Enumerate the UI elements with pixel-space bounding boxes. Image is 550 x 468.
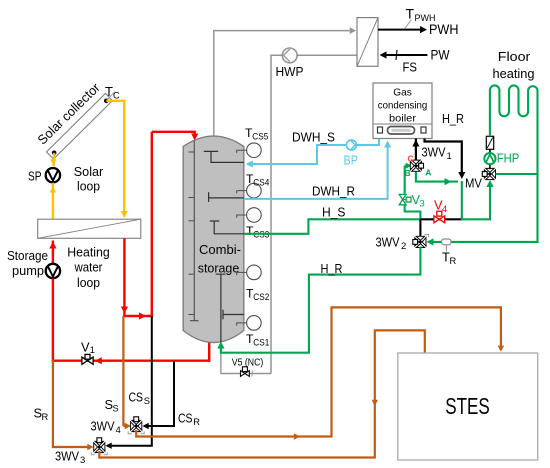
- wire H_S tank to junction (green): [244, 219, 421, 234]
- wire right riser to 3WV2 (green): [427, 174, 538, 246]
- label 3WV1: [422, 145, 452, 163]
- wire V1 return line (red): [52, 357, 210, 364]
- label H_R top: [442, 111, 464, 126]
- svg-text:V: V: [81, 340, 90, 355]
- node collector top port: [104, 99, 109, 104]
- svg-text:PW: PW: [431, 48, 450, 63]
- wire collector to solar HX (yellow): [106, 101, 128, 218]
- wire S_S (brown): [123, 316, 130, 429]
- svg-text:R: R: [450, 256, 457, 266]
- label H_S: [322, 205, 346, 220]
- svg-text:A: A: [425, 168, 431, 178]
- tank combi-storage body: [183, 136, 244, 342]
- label Gas condensing boiler: [378, 87, 428, 125]
- heat-exchanger PWH: [357, 18, 378, 67]
- label FS: [403, 60, 418, 75]
- valve 3WV1: [410, 160, 423, 171]
- svg-text:V5 (NC): V5 (NC): [232, 358, 263, 369]
- svg-text:boiler: boiler: [389, 113, 417, 125]
- svg-text:S: S: [113, 404, 119, 414]
- label CS_S: [129, 390, 151, 407]
- label Storage pump: [7, 248, 48, 278]
- svg-text:3WV: 3WV: [55, 449, 79, 464]
- svg-text:FS: FS: [403, 60, 418, 75]
- wire junction to MV bottom (green): [462, 180, 494, 220]
- svg-text:loop: loop: [77, 179, 100, 194]
- svg-text:CS4: CS4: [253, 178, 269, 188]
- wire S_R (brown): [53, 360, 94, 451]
- wire solar HX right riser (red): [151, 132, 153, 317]
- wire V4 segment (black): [420, 218, 461, 220]
- tank internal bottom pipe: [223, 310, 244, 320]
- svg-text:FHP: FHP: [497, 151, 520, 166]
- label CS_R: [178, 411, 200, 428]
- svg-text:R: R: [42, 412, 49, 422]
- STES box: [398, 353, 538, 460]
- pump FHP: [484, 153, 495, 164]
- solar collector panel: [47, 93, 113, 159]
- valve V4: [434, 211, 445, 223]
- svg-text:T: T: [406, 6, 415, 22]
- pump storage: [46, 264, 60, 278]
- svg-text:STES: STES: [445, 393, 490, 419]
- pump SP: [46, 168, 60, 182]
- svg-text:BP: BP: [344, 153, 359, 168]
- label Heating water loop: [67, 245, 110, 291]
- svg-text:3: 3: [80, 455, 85, 466]
- label PWH: [429, 22, 459, 37]
- actuator mark 3WV2: [425, 235, 429, 238]
- svg-text:T: T: [105, 84, 113, 99]
- wire solar supply to tank top (red): [152, 132, 199, 141]
- wire H_R return to tank (green): [217, 247, 420, 353]
- pump BP: [346, 140, 356, 150]
- svg-text:CS: CS: [178, 411, 193, 426]
- wire collector bottom to SP (yellow): [50, 153, 56, 166]
- svg-text:C: C: [408, 154, 414, 164]
- svg-text:C: C: [113, 91, 120, 101]
- boiler gas condensing box: [373, 83, 432, 139]
- tank internal DWH_R pipe: [209, 192, 244, 202]
- wire PWH outlet (black): [378, 26, 427, 33]
- label HWP: [276, 64, 304, 79]
- label Solar collector: [35, 79, 104, 147]
- heat-exchanger solar: [38, 219, 141, 238]
- sensor FS tick: [396, 50, 397, 60]
- node collector bottom port: [52, 151, 57, 156]
- valve V3: [399, 194, 411, 204]
- label port A: [425, 168, 431, 178]
- label 3WV4: [91, 419, 121, 437]
- label S_S: [105, 397, 119, 414]
- wire V5 drain (gray): [221, 353, 271, 374]
- svg-text:water: water: [74, 259, 104, 274]
- svg-text:SP: SP: [28, 169, 42, 184]
- svg-text:R: R: [193, 417, 200, 427]
- label STES: [445, 393, 490, 419]
- actuator marks 3WV4: [128, 431, 144, 434]
- wire MV to right riser (green): [496, 173, 538, 175]
- wire PW inlet (black): [380, 51, 428, 58]
- svg-text:1: 1: [447, 151, 452, 162]
- sensor T_R: [442, 239, 452, 252]
- valve 3WV2: [413, 236, 426, 247]
- label H_R bottom: [321, 261, 343, 276]
- label port C: [408, 154, 414, 164]
- svg-text:3WV: 3WV: [91, 419, 115, 434]
- label T_R: [442, 250, 457, 267]
- tank internal H_S diffuser: [210, 221, 244, 234]
- wire SP to solar HX (yellow): [50, 183, 56, 219]
- label V3: [412, 192, 425, 209]
- sensor tick T_PWH: [405, 20, 412, 29]
- svg-text:Floor: Floor: [498, 49, 531, 64]
- wire DWH_R tank to boiler (cyan): [244, 141, 391, 199]
- label V5 (NC): [232, 358, 263, 369]
- flow-meter FH: [486, 136, 493, 149]
- svg-text:pump: pump: [12, 263, 44, 278]
- svg-text:CS5: CS5: [252, 132, 268, 142]
- label PW: [431, 48, 450, 63]
- label port B: [405, 168, 411, 178]
- svg-text:4: 4: [116, 425, 121, 436]
- label Floor heating: [493, 49, 535, 81]
- sensor tick T_C: [108, 92, 116, 100]
- sensor circle T_CS2: [237, 265, 261, 280]
- svg-text:HWP: HWP: [276, 64, 304, 79]
- svg-text:MV: MV: [465, 176, 482, 191]
- tank internal stratifier pipe: [189, 141, 199, 321]
- wire storage pump down to V1 line (red): [52, 278, 54, 362]
- svg-text:DWH_R: DWH_R: [312, 183, 355, 198]
- svg-text:3WV: 3WV: [376, 234, 400, 249]
- svg-text:S: S: [144, 396, 150, 406]
- label T_CS2: [246, 287, 269, 303]
- valve 3WV3: [94, 438, 105, 453]
- label T_CS3: [246, 224, 269, 240]
- wire solar HX to storage pump (red): [49, 241, 56, 264]
- wire junction S (red): [123, 312, 153, 319]
- label T_CS4: [246, 172, 269, 188]
- svg-text:2: 2: [401, 241, 406, 252]
- wire 3WV3 to STES return (brown): [99, 330, 425, 457]
- wire tank-top to PWH heat exchanger (gray): [214, 27, 356, 137]
- valve 3WV4: [131, 417, 142, 432]
- wire 3WV4 to STES (brown): [136, 307, 504, 439]
- svg-text:CS1: CS1: [253, 338, 269, 348]
- label DWH_S: [292, 129, 335, 144]
- label T_PWH: [406, 6, 436, 25]
- actuator marks 3WV3: [91, 452, 107, 455]
- svg-text:4: 4: [442, 204, 447, 214]
- label 3WV3: [55, 449, 85, 467]
- tank internal DWH_S diffuser: [204, 151, 244, 162]
- svg-text:3: 3: [420, 199, 425, 209]
- svg-text:H_S: H_S: [322, 205, 346, 220]
- wire H_S junction to 3WV2 (black): [419, 219, 421, 237]
- svg-text:CS: CS: [129, 390, 144, 405]
- label T_C: [105, 84, 120, 101]
- valve MV: [482, 168, 495, 179]
- tank internal H_R riser: [216, 274, 226, 343]
- label 3WV2: [376, 234, 407, 252]
- svg-text:heating: heating: [493, 66, 535, 81]
- wire CS_S (black): [106, 316, 152, 449]
- sensor circle T_CS5: [237, 143, 261, 158]
- svg-text:Solar: Solar: [74, 164, 104, 179]
- label T_CS5: [245, 126, 268, 142]
- wire boiler H_R out (black): [425, 139, 466, 180]
- wire 3WV1 A-port to junction (green): [416, 170, 458, 185]
- wire 3WV1 to boiler (black): [412, 139, 419, 161]
- wire flowmeter connections (black): [489, 149, 491, 169]
- floor heating coil (green): [490, 85, 538, 174]
- wire HWP suction line (gray): [271, 55, 357, 373]
- wire solar HX left drop (red): [121, 238, 128, 317]
- svg-text:DWH_S: DWH_S: [292, 129, 335, 144]
- svg-text:loop: loop: [77, 275, 100, 290]
- label Solar loop: [74, 164, 104, 194]
- svg-text:CS2: CS2: [253, 292, 269, 302]
- wire DWH_S boiler to tank (cyan): [246, 139, 379, 168]
- sensor circle T_CS3: [237, 208, 261, 223]
- wire V3 branch (green): [405, 163, 421, 220]
- svg-text:Combi-: Combi-: [199, 242, 241, 257]
- valve V5 (NC): [241, 367, 253, 377]
- label BP: [344, 153, 359, 168]
- label MV: [465, 176, 482, 191]
- valve V1: [82, 354, 93, 364]
- label T_CS1: [246, 332, 269, 348]
- svg-text:storage: storage: [198, 261, 240, 276]
- svg-text:3WV: 3WV: [422, 145, 446, 160]
- svg-text:PWH: PWH: [429, 22, 459, 37]
- svg-text:Storage: Storage: [7, 248, 48, 263]
- label SP: [28, 169, 42, 184]
- label DWH_R: [312, 183, 355, 198]
- label FHP: [497, 151, 520, 166]
- svg-text:1: 1: [90, 345, 95, 355]
- wire CS_R (black): [143, 361, 175, 430]
- label V1: [81, 340, 95, 356]
- pump HWP: [282, 48, 297, 63]
- svg-text:condensing: condensing: [378, 100, 428, 112]
- sensor circle T_CS1: [237, 316, 261, 331]
- svg-text:H_R: H_R: [321, 261, 343, 276]
- sensor circle T_CS4: [237, 183, 261, 198]
- svg-text:H_R: H_R: [442, 111, 464, 126]
- svg-text:Heating: Heating: [67, 245, 110, 260]
- svg-text:Gas: Gas: [393, 87, 412, 99]
- label S_R: [34, 406, 49, 423]
- label V4: [434, 198, 447, 215]
- wire tank bottom to V1 line (red): [208, 338, 210, 362]
- svg-text:B: B: [405, 168, 411, 178]
- label Combi-storage: [198, 242, 241, 276]
